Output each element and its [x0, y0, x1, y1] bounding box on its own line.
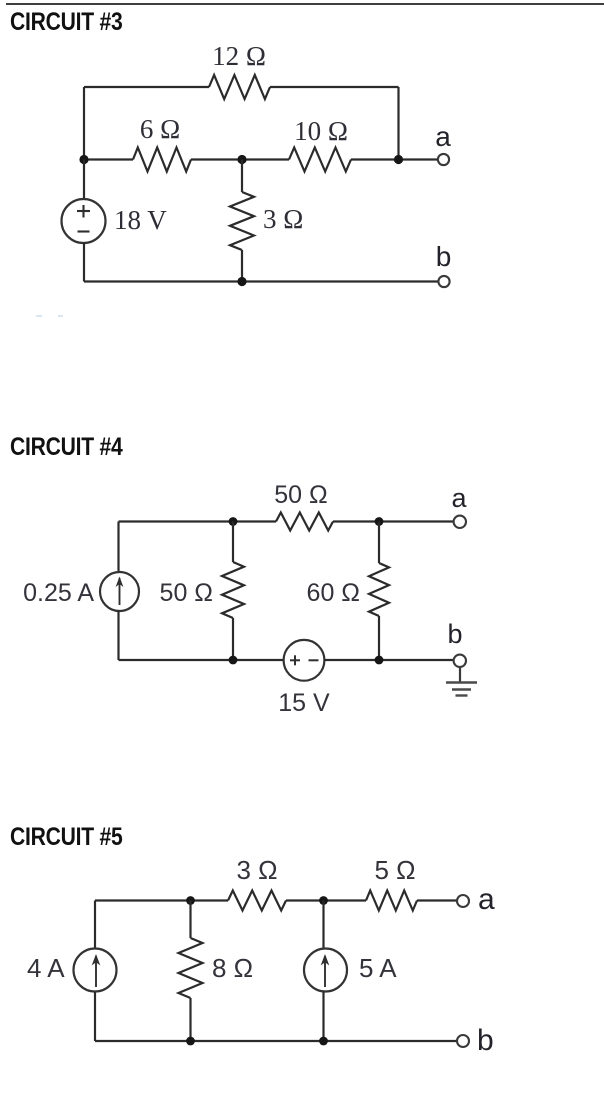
terminal b open circle (C4): [454, 655, 466, 667]
wire: C4 left vertical below source: [117, 611, 119, 660]
minus sign of 15V source: [309, 659, 319, 661]
svg-text:12 Ω: 12 Ω: [212, 41, 266, 71]
node: C5 dot top x190: [186, 896, 195, 905]
top horizontal rule: [6, 3, 604, 5]
minus sign of 18V source: [78, 230, 90, 232]
wire: C4 bottom wire left of 15V: [119, 659, 284, 661]
node: C5 dot bottom x323: [319, 1037, 328, 1046]
ground bar 2: [452, 688, 471, 690]
svg-text:3 Ω: 3 Ω: [263, 204, 303, 234]
wire: C3 middle wire right segment to terminal a: [351, 158, 438, 160]
voltage source V 18V circle: [62, 199, 106, 243]
terminal a open circle (C5): [457, 895, 469, 907]
node: C4 dot top x379: [375, 517, 384, 526]
wire: C3 center vertical above 3ohm: [241, 160, 243, 193]
svg-text:5 Ω: 5 Ω: [374, 855, 415, 885]
svg-text:5 A: 5 A: [359, 953, 397, 983]
wire: C3 left vertical above source: [83, 160, 85, 200]
ground bar 3: [456, 694, 468, 696]
plus sign of 18V source: [82, 205, 84, 218]
title CIRCUIT #4: [10, 433, 123, 462]
wire: C5 8ohm branch bottom stub: [189, 998, 191, 1041]
wire: C4 60ohm branch bottom stub: [378, 616, 380, 660]
node: junction dot bottom-center: [237, 277, 246, 286]
terminal a open circle (C4): [454, 516, 466, 528]
title CIRCUIT #5: [10, 823, 123, 852]
resistor R 50ohm vertical zigzag: [222, 562, 244, 618]
wire: C4 left vertical above source: [117, 522, 119, 573]
resistor R 5ohm zigzag: [366, 891, 417, 911]
svg-text:3 Ω: 3 Ω: [236, 855, 277, 885]
svg-text:18 V: 18 V: [114, 205, 167, 235]
svg-text:b: b: [436, 241, 452, 272]
arrow inside 4A source: [95, 956, 97, 987]
wire: C5 top wire middle segment: [286, 899, 366, 901]
wire: C5 top wire left segment: [95, 899, 228, 901]
terminal b open circle (C3): [438, 276, 449, 287]
wire: C5 8ohm branch top stub: [189, 901, 191, 939]
svg-text:0.25 A: 0.25 A: [23, 579, 94, 607]
current source I 0.25A circle: [100, 572, 139, 611]
node: C5 dot bottom x190: [186, 1037, 195, 1046]
resistor R 50ohm horizontal zigzag: [276, 513, 333, 531]
resistor R 60ohm vertical zigzag: [369, 563, 389, 616]
current source I 4A circle: [74, 949, 117, 992]
svg-text:6 Ω: 6 Ω: [140, 114, 180, 144]
svg-text:a: a: [435, 121, 451, 152]
wire: C3 top horizontal wire: [84, 86, 209, 88]
title CIRCUIT #3: [10, 8, 123, 37]
node: C5 dot top x323: [319, 896, 328, 905]
resistor R 12ohm zigzag: [209, 75, 270, 99]
resistor R 10ohm zigzag: [289, 148, 351, 172]
svg-text:60 Ω: 60 Ω: [307, 579, 360, 607]
wire: C4 bottom wire right of 15V to terminal b: [324, 659, 453, 661]
wire: C4 top wire left of 50ohm: [119, 520, 277, 522]
resistor R 6ohm zigzag: [133, 148, 191, 172]
wire: C5 bottom wire: [95, 1040, 458, 1042]
svg-text:15 V: 15 V: [278, 689, 330, 717]
wire: C3 middle wire center segment: [191, 158, 289, 160]
wire: C5 left vertical above 4A source: [94, 901, 96, 949]
svg-text:a: a: [478, 883, 495, 916]
terminal b open circle (C5): [457, 1035, 469, 1047]
node: C4 dot bottom x379: [375, 656, 384, 665]
wire: C4 50ohm-vert branch top stub: [232, 522, 234, 563]
wire: C3 middle wire left segment: [84, 158, 133, 160]
ground bar 1: [446, 681, 477, 683]
plus sign of 15V source: [294, 655, 296, 665]
node: junction dot mid-left: [79, 155, 88, 164]
current source I 5A circle: [304, 949, 347, 992]
resistor R 8ohm vertical zigzag: [179, 938, 203, 998]
node: C4 dot bottom x233: [229, 656, 238, 665]
wire: C3 left vertical below source: [83, 243, 85, 282]
wire: C4 top wire right of 50ohm to terminal a: [333, 520, 454, 522]
wire: C3 top-left vertical segment: [83, 87, 85, 160]
svg-text:a: a: [451, 483, 467, 513]
resistor R 3ohm zigzag: [228, 891, 286, 911]
wire: C4 50ohm-vert branch bottom stub: [232, 618, 234, 660]
wire: C3 bottom horizontal wire: [84, 280, 438, 282]
svg-text:b: b: [477, 1024, 494, 1057]
voltage source V 15V circle: [284, 640, 325, 681]
wire: C5 5A branch top stub: [322, 901, 324, 949]
svg-text:b: b: [447, 619, 462, 649]
wire: C4 60ohm branch top stub: [378, 522, 380, 564]
wire: C3 right vertical (top to middle): [397, 87, 399, 160]
wire: C5 5A branch bottom stub: [322, 992, 324, 1042]
svg-text:10 Ω: 10 Ω: [294, 116, 348, 146]
node: C4 dot top x233: [229, 517, 238, 526]
wire: C5 top wire right segment to terminal a: [417, 899, 457, 901]
wire: C5 left vertical below 4A source: [94, 992, 96, 1042]
ground: vertical stub below terminal b: [459, 667, 461, 682]
node: junction dot mid-right: [394, 155, 403, 164]
arrow inside 5A source: [324, 956, 326, 987]
arrow inside 0.25A source: [119, 578, 121, 605]
wire: C3 center vertical below 3ohm: [241, 250, 243, 282]
resistor R 3ohm vertical zigzag: [230, 192, 254, 250]
svg-text:50 Ω: 50 Ω: [160, 579, 213, 607]
terminal a open circle: [438, 154, 449, 165]
svg-text:50 Ω: 50 Ω: [274, 481, 327, 509]
node: junction dot mid-center: [237, 155, 246, 164]
svg-text:4 A: 4 A: [27, 953, 65, 983]
svg-text:8 Ω: 8 Ω: [212, 953, 253, 983]
